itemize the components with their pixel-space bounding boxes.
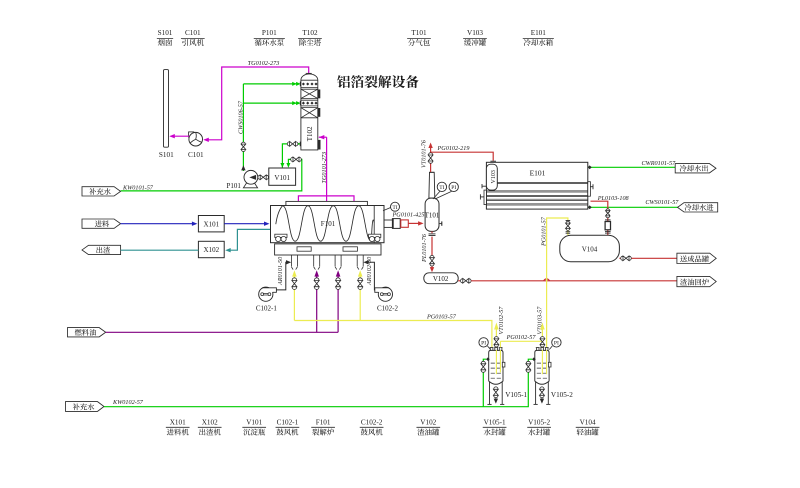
svg-text:TG0102-273: TG0102-273	[248, 60, 280, 67]
vessel V101	[269, 168, 296, 185]
valve makeup V105-2	[526, 361, 531, 372]
blower C102-1	[259, 287, 277, 301]
indicator PI V105-1	[488, 346, 491, 350]
blower C102-2	[375, 287, 393, 301]
burner valves	[292, 278, 297, 290]
chimney S101	[164, 70, 169, 148]
pipe PG0103-57	[294, 321, 492, 348]
flag 进料	[82, 219, 121, 228]
svg-text:PG0103-57: PG0103-57	[426, 313, 457, 320]
svg-text:CWR0101-57: CWR0101-57	[642, 160, 677, 167]
svg-text:T102: T102	[306, 126, 314, 141]
flag 渣油回炉	[677, 276, 716, 286]
svg-text:PG0102-57: PG0102-57	[506, 334, 537, 341]
svg-text:T101: T101	[425, 212, 440, 220]
svg-text:V105-2: V105-2	[551, 391, 573, 399]
pump P101	[243, 170, 257, 187]
valve V104 top	[566, 221, 571, 230]
svg-text:T102: T102	[302, 29, 318, 37]
vessel V103	[486, 164, 497, 190]
pipe makeup V105-1	[482, 373, 484, 407]
svg-text:X102: X102	[202, 418, 218, 426]
svg-text:V105-2: V105-2	[528, 418, 550, 426]
indicator PI V105-2	[549, 346, 552, 350]
furnace F101	[271, 201, 385, 242]
svg-text:V101: V101	[274, 174, 290, 182]
vessel T101	[425, 198, 439, 231]
vent VT0102-57	[495, 346, 497, 348]
valve pump-V101	[258, 175, 269, 180]
top equipment label row	[157, 29, 554, 46]
cooler E101	[480, 162, 593, 209]
furnace outlet nozzles	[384, 219, 392, 221]
svg-text:PG0102-219: PG0102-219	[437, 145, 470, 152]
valve VT0102	[494, 337, 499, 347]
valve makeup to V101	[291, 157, 302, 162]
pipe CWS0101-57	[588, 206, 678, 208]
burner pipe lines	[293, 275, 295, 321]
svg-text:PI: PI	[451, 185, 456, 191]
T101 side nozzle	[439, 223, 442, 225]
flange T101 bottom	[429, 233, 436, 235]
pipe PL0101-76	[431, 231, 433, 233]
svg-text:C101: C101	[185, 29, 201, 37]
pipe fan to chimney	[171, 135, 190, 137]
pipe slag oil return	[471, 280, 677, 282]
flag 燃料油	[68, 328, 106, 337]
flag 冷却水出	[675, 164, 716, 173]
svg-text:V105-1: V105-1	[484, 418, 506, 426]
pipe furnace to X102 teal	[227, 229, 271, 250]
svg-text:PI: PI	[554, 341, 559, 347]
svg-text:S101: S101	[159, 151, 174, 159]
pipe PG0101-57 dip	[546, 350, 548, 374]
svg-text:X101: X101	[204, 220, 220, 228]
svg-text:V102: V102	[420, 418, 436, 426]
valve makeup V105-1	[481, 361, 486, 372]
pipe KW0101-57	[121, 159, 302, 191]
valve PL0103	[606, 209, 610, 218]
svg-text:S101: S101	[158, 29, 173, 37]
valve VT0103	[540, 337, 545, 347]
svg-text:E101: E101	[531, 29, 547, 37]
pipe PG0101-57	[547, 218, 568, 347]
pipe PG0101-425	[408, 222, 422, 224]
svg-text:V103: V103	[491, 170, 497, 183]
svg-text:V104: V104	[582, 245, 598, 253]
svg-text:V104: V104	[580, 418, 596, 426]
svg-text:F101: F101	[321, 220, 336, 228]
svg-text:AR0101-50: AR0101-50	[277, 256, 284, 286]
indicator TI T101	[433, 191, 441, 199]
furnace base	[275, 244, 381, 255]
trap PL0103	[605, 219, 611, 221]
svg-text:E101: E101	[530, 168, 546, 177]
svg-text:CWS0101-57: CWS0101-57	[645, 199, 679, 206]
water seal tank V105-2	[534, 348, 552, 405]
svg-text:KW0102-57: KW0102-57	[112, 399, 144, 406]
pipe CWR0101-57	[588, 166, 675, 168]
svg-text:V101: V101	[246, 418, 262, 426]
vessel V102	[424, 273, 458, 284]
valve on spray header	[241, 142, 246, 151]
pipe spray branch 1	[243, 83, 296, 85]
svg-text:P101: P101	[226, 182, 241, 190]
svg-text:X101: X101	[170, 418, 186, 426]
vessel V104	[560, 235, 620, 262]
pipe V101 to T102	[282, 144, 287, 168]
svg-text:PI: PI	[481, 341, 486, 347]
svg-text:PG0101-425: PG0101-425	[392, 212, 425, 219]
pipe to product flag	[631, 257, 677, 259]
vent VT0103-57	[541, 346, 543, 348]
title 铝箔裂解设备	[337, 75, 419, 88]
flange at T102 top	[306, 72, 312, 74]
svg-text:C102-1: C102-1	[277, 418, 299, 426]
flag 补充水 top	[82, 187, 121, 196]
valve PL0101	[430, 255, 435, 266]
pipe PL0103-108	[591, 201, 608, 209]
bottom equipment label row	[166, 418, 600, 435]
pipe PG0102-57	[499, 341, 501, 347]
svg-text:V102: V102	[433, 275, 449, 283]
water seal tank V105-1	[487, 348, 505, 405]
tower T102	[301, 74, 320, 150]
flag 送成品罐	[677, 253, 716, 263]
svg-text:C102-2: C102-2	[361, 418, 383, 426]
svg-text:TI: TI	[392, 205, 397, 211]
pipe furnace top manifold	[298, 196, 354, 201]
pipe VT0101-76	[430, 144, 432, 172]
svg-text:PL0101-76: PL0101-76	[421, 233, 428, 263]
pipe TG0101-273	[319, 136, 327, 138]
svg-text:X102: X102	[204, 246, 220, 254]
pipe PG0102-219	[431, 152, 494, 161]
svg-text:V103: V103	[467, 29, 483, 37]
pipe KW0102-57	[104, 373, 528, 407]
pipe X101 to furnace	[224, 223, 268, 225]
pipe TG0102-273	[205, 67, 309, 140]
pipe AR0102-50	[368, 262, 375, 290]
svg-text:F101: F101	[316, 418, 331, 426]
feeder X101	[198, 216, 224, 232]
slag conveyor X102	[198, 241, 224, 257]
flag 冷却水进	[678, 203, 718, 212]
fan C101	[189, 132, 203, 146]
flange V103 top	[490, 160, 496, 162]
svg-text:C102-2: C102-2	[377, 304, 399, 312]
indicator PI T101	[435, 191, 452, 199]
pipe spray header	[242, 84, 244, 171]
svg-text:C101: C101	[188, 151, 204, 159]
svg-text:VT0102-57: VT0102-57	[498, 306, 505, 335]
flag 补充水 bottom	[66, 402, 105, 412]
pipe fuel oil	[106, 331, 338, 333]
svg-text:T101: T101	[411, 29, 427, 37]
svg-text:VT0101-76: VT0101-76	[421, 139, 428, 168]
vessel T101 neck	[429, 172, 435, 198]
svg-text:KW0101-57: KW0101-57	[122, 184, 154, 191]
valve V104 out	[619, 257, 620, 259]
pipe feed blue	[121, 223, 196, 225]
svg-text:P101: P101	[262, 29, 277, 37]
valve V101-T102	[287, 142, 298, 147]
pipe AR0101-50	[276, 262, 287, 290]
indicator TI furnace	[383, 207, 391, 211]
burner pipes	[291, 255, 363, 277]
pipe spray branch 2	[243, 102, 296, 104]
svg-text:TI: TI	[439, 185, 444, 191]
svg-text:V105-1: V105-1	[505, 391, 527, 399]
flag 出渣	[82, 245, 121, 254]
svg-text:C102-1: C102-1	[256, 304, 278, 312]
valve V102 out	[458, 280, 460, 282]
pipe X102 to flag	[121, 249, 199, 251]
valve VT0101	[428, 153, 433, 164]
svg-text:AR0102-50: AR0102-50	[366, 256, 373, 286]
